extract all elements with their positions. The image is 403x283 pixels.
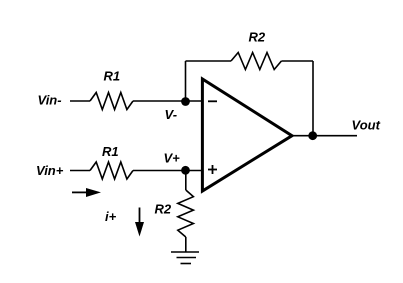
svg-text:i+: i+ xyxy=(105,209,117,224)
wire Vin+ to R1 xyxy=(70,170,90,172)
current arrow i+ downward xyxy=(135,208,144,237)
svg-text:Vin-: Vin- xyxy=(38,93,62,108)
wire R1 to V+ node and op-amp xyxy=(133,170,202,172)
svg-text:Vin+: Vin+ xyxy=(36,163,64,178)
node Vout junction dot xyxy=(308,131,317,140)
svg-text:R2: R2 xyxy=(155,202,172,217)
ground xyxy=(171,252,199,264)
resistor R1 (bottom) xyxy=(90,162,133,179)
wire feedback left segment xyxy=(186,60,232,62)
svg-text:Vout: Vout xyxy=(352,118,381,133)
node V+ junction dot xyxy=(181,166,190,175)
resistor R2 (feedback) xyxy=(231,53,281,70)
op-amp minus input marking xyxy=(208,100,217,102)
wire Vin- to R1 xyxy=(70,100,90,102)
wire R2 to ground xyxy=(185,237,187,252)
resistor R1 (top) xyxy=(90,93,133,110)
wire feedback down to output node xyxy=(312,61,314,136)
current arrow into Vin+ xyxy=(72,188,101,197)
node V- junction dot xyxy=(181,97,190,106)
wire V- node up to feedback xyxy=(185,61,187,101)
svg-text:V+: V+ xyxy=(164,151,181,166)
op-amp U1 xyxy=(202,79,292,191)
op-amp plus input marking xyxy=(208,165,217,174)
wire feedback right segment xyxy=(281,60,313,62)
svg-text:V-: V- xyxy=(165,107,178,122)
wire op-amp output to Vout xyxy=(292,135,357,137)
wire R1 to V- node and op-amp xyxy=(133,100,202,102)
svg-text:R1: R1 xyxy=(104,69,121,84)
svg-text:R2: R2 xyxy=(249,30,266,45)
wire V+ node down to R2 xyxy=(185,171,187,191)
resistor R2 (to ground) xyxy=(178,190,194,237)
svg-text:R1: R1 xyxy=(102,144,119,159)
